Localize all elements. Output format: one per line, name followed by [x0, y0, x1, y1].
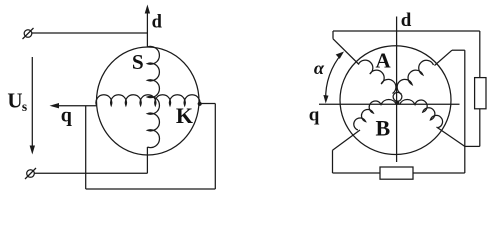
bottom rail left part [333, 172, 381, 174]
junction dot K right [198, 102, 202, 106]
svg-text:q: q [61, 105, 72, 127]
winding A center loop [393, 92, 402, 101]
top rail (right diagram) [333, 30, 480, 32]
winding S bottom lead [146, 147, 148, 173]
alpha angle arc with arrows [323, 52, 344, 104]
svg-text:α: α [314, 58, 325, 78]
winding K (horizontal coil) [96, 95, 200, 106]
label d (right) [401, 10, 412, 31]
winding B right chain [400, 99, 443, 127]
svg-text:B: B [376, 116, 391, 141]
wire top terminal to d-axis [32, 32, 148, 34]
resistor R2 (bottom horizontal) [380, 167, 413, 179]
label alpha [314, 58, 325, 78]
stator circle (right) [340, 46, 451, 155]
winding A left chain [359, 60, 396, 93]
wire bottom terminal to S lead [34, 172, 147, 174]
winding S (vertical coil) [147, 46, 159, 147]
stator circle (left) [97, 47, 200, 155]
wire K left lead down [85, 106, 87, 189]
svg-text:A: A [376, 48, 392, 72]
right outer wire lower [479, 109, 481, 147]
svg-text:q: q [309, 105, 320, 126]
label Us [7, 88, 22, 112]
d axis line (right) [396, 17, 398, 163]
junction dot center (right) [395, 101, 399, 105]
inner right riser [464, 50, 466, 173]
terminal bottom-left (slashed circle) [25, 168, 36, 179]
label K [176, 103, 193, 128]
svg-text:d: d [152, 12, 163, 32]
terminal top-left (slashed circle) [23, 28, 34, 39]
top-right link [452, 49, 465, 51]
bottom rail right part [413, 172, 465, 174]
bottom-right diagonal [437, 127, 465, 146]
wire K right lead [200, 103, 216, 105]
svg-text:s: s [22, 99, 27, 114]
Us voltage arrow [30, 57, 35, 155]
right outer link to riser [465, 145, 480, 147]
q axis line (right) [319, 103, 460, 105]
q axis arrow (left diagram) [50, 103, 97, 108]
top-left stub [332, 31, 334, 39]
label d (left) [152, 12, 163, 32]
resistor R1 (right vertical) [475, 78, 486, 109]
label q (right) [309, 105, 320, 126]
svg-text:U: U [7, 88, 22, 112]
wire right riser (left diagram) [214, 104, 216, 190]
winding A right chain [397, 60, 433, 94]
label q (left) [61, 105, 72, 127]
label S [132, 50, 144, 74]
svg-text:S: S [132, 50, 144, 74]
svg-text:d: d [401, 10, 412, 31]
top-left diagonal [333, 39, 359, 65]
svg-text:K: K [176, 103, 193, 128]
bottom-left stub [332, 150, 334, 173]
top-right diagonal [435, 50, 453, 65]
right outer wire upper [479, 31, 481, 78]
d axis arrow (left) [145, 5, 150, 48]
bottom-left diagonal [333, 130, 361, 150]
label B [376, 116, 391, 141]
label A [376, 48, 392, 72]
wire bottom rail (left diagram) [86, 188, 216, 190]
winding B left chain [354, 99, 397, 130]
